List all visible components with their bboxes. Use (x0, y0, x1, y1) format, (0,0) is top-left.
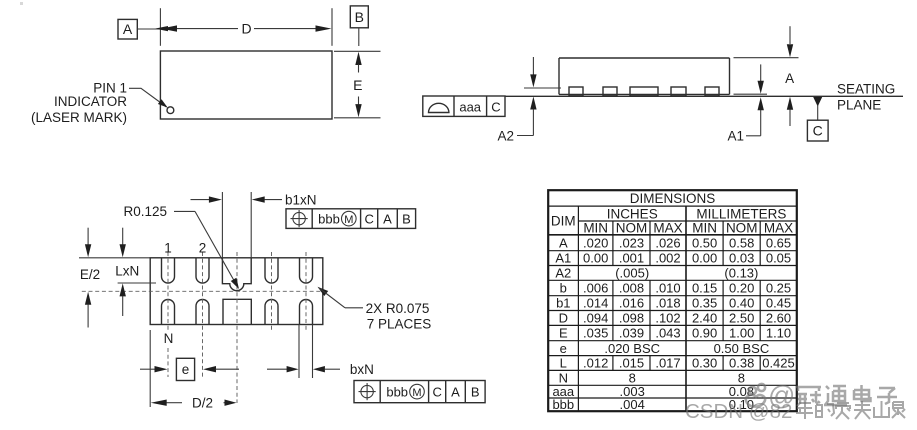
bottom view bottom slot col 2 (196, 300, 209, 325)
dimensions table header text (551, 191, 793, 236)
dimension D line and arrows (155, 20, 332, 36)
dimension LxN reference tick (118, 282, 156, 284)
dimension A2 reference tick (524, 87, 561, 89)
svg-text:R0.125: R0.125 (124, 204, 168, 219)
dimensions table data text (552, 235, 794, 412)
svg-text:B: B (355, 9, 364, 25)
svg-text:M: M (344, 214, 353, 226)
dimension E extension lines (334, 51, 381, 118)
svg-text:.017: .017 (655, 356, 680, 371)
watermark char nian (796, 403, 813, 419)
dimension e box and arrows (140, 358, 239, 380)
watermark paw icon (746, 384, 765, 407)
side view flatness control frame (423, 96, 505, 116)
svg-text:aaa: aaa (459, 99, 481, 114)
svg-text:1.00: 1.00 (729, 326, 754, 341)
svg-text:.006: .006 (583, 281, 608, 296)
svg-text:.102: .102 (655, 311, 680, 326)
svg-text:.035: .035 (583, 326, 608, 341)
svg-text:1: 1 (164, 241, 172, 256)
svg-text:DIMENSIONS: DIMENSIONS (630, 191, 716, 206)
bottom view bottom slot pin N (162, 300, 175, 325)
svg-text:.026: .026 (655, 235, 680, 250)
svg-text:NOM: NOM (726, 221, 758, 236)
svg-text:A: A (559, 235, 568, 250)
svg-text:(0.13): (0.13) (724, 266, 758, 281)
svg-text:E: E (353, 77, 362, 93)
svg-text:.020 BSC: .020 BSC (604, 341, 660, 356)
svg-text:.015: .015 (619, 356, 644, 371)
svg-text:B: B (471, 384, 480, 399)
datum B symbol box (350, 6, 368, 28)
svg-text:A1: A1 (727, 129, 744, 144)
svg-text:0.425: 0.425 (762, 356, 795, 371)
bottom view top slot pin 1 (162, 258, 175, 283)
svg-text:bbb: bbb (386, 384, 408, 399)
svg-text:A: A (123, 21, 133, 37)
top view package body outline (160, 51, 332, 119)
svg-text:0.65: 0.65 (766, 235, 791, 250)
svg-text:MAX: MAX (653, 221, 682, 236)
svg-text:LxN: LxN (115, 263, 139, 278)
svg-text:0.40: 0.40 (729, 296, 754, 311)
dimension D/2 arrows and label (151, 396, 237, 411)
svg-text:2.50: 2.50 (729, 311, 754, 326)
svg-text:2X R0.075: 2X R0.075 (366, 301, 430, 316)
svg-text:.098: .098 (619, 311, 644, 326)
side view lead pads (569, 87, 719, 96)
position control frame bottom (354, 381, 485, 403)
position control frame top (286, 209, 416, 229)
svg-text:.039: .039 (619, 326, 644, 341)
svg-text:bbb: bbb (318, 211, 340, 226)
svg-text:A: A (383, 211, 392, 226)
bottom view top slot pin 2 (196, 258, 209, 283)
dimension A arrows and label (785, 26, 794, 126)
svg-text:SEATING: SEATING (837, 82, 895, 97)
svg-text:.043: .043 (655, 326, 680, 341)
svg-text:2: 2 (199, 241, 207, 256)
svg-text:0.00: 0.00 (583, 251, 608, 266)
side view package body (559, 58, 730, 94)
centerline center column (236, 252, 238, 403)
dimension bxN extension lines (299, 325, 313, 379)
bottom view top slot pin 5 (300, 258, 313, 283)
dimension E/2 arrows and label (80, 228, 100, 328)
horizontal centerline (82, 290, 327, 292)
svg-text:E: E (559, 326, 568, 341)
watermark char guan (796, 387, 821, 404)
svg-text:A: A (451, 384, 460, 399)
svg-text:1.10: 1.10 (766, 326, 791, 341)
svg-text:MIN: MIN (583, 221, 608, 236)
svg-text:2.40: 2.40 (692, 311, 717, 326)
svg-text:MAX: MAX (764, 221, 793, 236)
svg-text:(.005): (.005) (615, 266, 649, 281)
datum C symbol box (807, 120, 828, 141)
watermark line 2 CSDN text (685, 400, 792, 423)
watermark line 1 at symbol (768, 381, 795, 411)
svg-text:D: D (559, 311, 568, 326)
svg-text:MILLIMETERS: MILLIMETERS (696, 206, 786, 221)
watermark char de (816, 401, 834, 417)
svg-text:DIM: DIM (551, 214, 576, 229)
svg-text:.014: .014 (583, 296, 608, 311)
bottom view bottom slot col 5 (300, 300, 313, 325)
svg-text:M: M (412, 387, 421, 399)
dimension A1 reference tick (734, 93, 768, 95)
svg-text:0.58: 0.58 (729, 235, 754, 250)
R0.125 label and leader (124, 204, 240, 289)
dimension A2 arrows and label (497, 57, 536, 143)
svg-text:.012: .012 (583, 356, 608, 371)
svg-text:B: B (402, 211, 411, 226)
pin 1 indicator label text (31, 81, 127, 125)
svg-text:PLANE: PLANE (837, 98, 881, 113)
svg-text:0.50: 0.50 (692, 235, 717, 250)
centerline col 5 (305, 252, 307, 330)
svg-text:.094: .094 (583, 311, 608, 326)
dimension E line and arrows (353, 52, 362, 118)
dimension b1xN extension lines (222, 192, 251, 258)
watermark char fu (854, 401, 871, 419)
watermark char shan (874, 401, 889, 417)
watermark char nong (835, 403, 851, 419)
svg-text:A: A (785, 71, 794, 86)
svg-text:0.45: 0.45 (766, 296, 791, 311)
svg-text:0.50 BSC: 0.50 BSC (714, 341, 770, 356)
svg-text:0.03: 0.03 (729, 251, 754, 266)
bottom view bottom center pad rectangle (223, 299, 251, 324)
watermark char quan (892, 402, 905, 418)
svg-text:.018: .018 (655, 296, 680, 311)
svg-text:2.60: 2.60 (766, 311, 791, 326)
dimension bxN arrows and label (267, 362, 374, 377)
pin 1 leader line (129, 88, 168, 107)
dimension b1xN arrows and label (191, 192, 317, 207)
svg-text:0.35: 0.35 (692, 296, 717, 311)
pin 1 indicator circle (167, 107, 174, 114)
svg-text:e: e (182, 362, 190, 377)
svg-text:0.20: 0.20 (729, 281, 754, 296)
dimension A extension line (734, 57, 799, 59)
svg-text:0.15: 0.15 (692, 281, 717, 296)
svg-text:b1xN: b1xN (285, 192, 317, 207)
seating plane line (505, 95, 903, 97)
svg-text:0.30: 0.30 (692, 356, 717, 371)
dimension E/2 extension line (79, 257, 150, 259)
svg-text:D/2: D/2 (192, 396, 213, 411)
datum B leader wire (358, 28, 360, 46)
dimension D extension lines (160, 8, 332, 46)
svg-text:A1: A1 (555, 251, 571, 266)
svg-text:C: C (813, 123, 823, 139)
dimension A1 arrows and label (727, 64, 763, 143)
svg-text:0.38: 0.38 (729, 356, 754, 371)
datum C triangle marker (813, 97, 822, 120)
datum A symbol box (118, 19, 137, 39)
svg-text:CSDN @82: CSDN @82 (685, 400, 792, 423)
bottom view package outline (150, 258, 323, 325)
bottom view top slot pin 4 (265, 258, 278, 283)
seating plane label (837, 82, 895, 113)
svg-text:.002: .002 (655, 251, 680, 266)
dimensions table grid (548, 190, 797, 411)
centerline col 4 (271, 252, 273, 330)
stray mark top left (20, 2, 23, 5)
svg-text:D: D (241, 20, 251, 36)
svg-text:.004: .004 (620, 397, 645, 412)
svg-text:(LASER MARK): (LASER MARK) (31, 110, 127, 125)
datum A leader wire (137, 28, 160, 30)
svg-text:.020: .020 (583, 235, 608, 250)
svg-text:INCHES: INCHES (607, 206, 658, 221)
svg-text:.001: .001 (619, 251, 644, 266)
svg-text:.010: .010 (655, 281, 680, 296)
bottom view center notch with R0.125 semicircle (222, 258, 251, 291)
svg-text:NOM: NOM (616, 221, 648, 236)
svg-text:bxN: bxN (350, 362, 374, 377)
svg-text:C: C (491, 99, 500, 114)
svg-text:.008: .008 (619, 281, 644, 296)
centerline col 1 (167, 252, 169, 377)
svg-text:bbb: bbb (552, 397, 574, 412)
svg-text:MIN: MIN (692, 221, 717, 236)
svg-text:.023: .023 (619, 235, 644, 250)
2X R0.075 leader and label (318, 287, 432, 332)
svg-text:N: N (164, 331, 174, 346)
svg-text:b: b (560, 281, 567, 296)
watermark char tong (824, 386, 847, 405)
svg-text:0.25: 0.25 (766, 281, 791, 296)
svg-text:A2: A2 (555, 266, 571, 281)
bottom view bottom slot col 4 (265, 300, 278, 325)
pin number labels (164, 241, 207, 347)
svg-text:0.90: 0.90 (692, 326, 717, 341)
svg-text:7 PLACES: 7 PLACES (367, 317, 432, 332)
svg-text:INDICATOR: INDICATOR (54, 94, 127, 109)
svg-text:b1: b1 (556, 296, 570, 311)
svg-text:C: C (433, 384, 442, 399)
svg-text:C: C (365, 211, 374, 226)
centerline col 2 (202, 252, 204, 377)
watermark char zi (877, 388, 897, 404)
watermark char dian (854, 385, 871, 401)
svg-text:.016: .016 (619, 296, 644, 311)
dimension LxN arrows and label (115, 228, 139, 316)
dimension D/2 extension line (149, 330, 151, 407)
svg-text:e: e (560, 341, 567, 356)
svg-text:E/2: E/2 (80, 267, 100, 282)
svg-text:L: L (560, 356, 567, 371)
svg-text:0.05: 0.05 (766, 251, 791, 266)
svg-text:A2: A2 (497, 128, 514, 143)
svg-text:0.00: 0.00 (692, 251, 717, 266)
